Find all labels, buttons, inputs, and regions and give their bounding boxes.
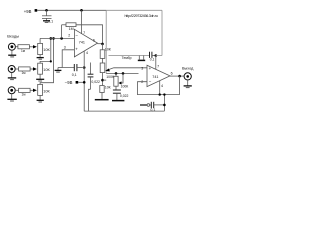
wire pin4 op1 down xyxy=(83,51,85,111)
svg-text:Входы: Входы xyxy=(7,33,19,38)
wire pin7 op1 xyxy=(81,10,83,33)
svg-text:10К: 10К xyxy=(105,48,112,52)
wiper arrow R1 to pot xyxy=(29,46,33,48)
wire wiper to pin3 op2 xyxy=(114,67,147,69)
potentiometer R4 10K xyxy=(38,63,43,74)
svg-text:10К: 10К xyxy=(43,68,50,72)
resistor R3 xyxy=(19,67,31,71)
wiper tap R8 xyxy=(120,73,123,83)
wire -9V xyxy=(78,81,84,83)
ground XS1 xyxy=(11,50,13,55)
node +9V dot xyxy=(35,9,38,12)
wire pot2 top join xyxy=(40,38,51,63)
junction dot pin4 xyxy=(159,93,161,95)
op-amp U2 741 xyxy=(147,65,170,86)
ground C4 xyxy=(116,93,118,100)
junction dot chain xyxy=(101,79,104,82)
junction dot bias2 xyxy=(122,72,125,75)
svg-text:0,1: 0,1 xyxy=(72,73,77,77)
potentiometer R4b 10K xyxy=(38,84,43,95)
potentiometer R7 100K volume xyxy=(100,63,105,73)
wire pot bottom xyxy=(102,73,104,83)
wire +9V rail xyxy=(37,9,106,11)
svg-text:Тембр: Тембр xyxy=(122,56,132,60)
wire input2 xyxy=(15,68,18,70)
label inputs xyxy=(7,33,19,38)
junction dot -9V xyxy=(83,81,86,84)
svg-text:3: 3 xyxy=(64,46,66,50)
wire riser to rail xyxy=(163,95,165,112)
wiper arrow R7 xyxy=(107,68,114,70)
wire +9V right drop xyxy=(161,10,163,55)
connector XS4 output xyxy=(184,73,191,80)
junction dot ch2 corner xyxy=(50,60,52,62)
potentiometer R8 100K xyxy=(115,73,117,76)
wire op1 output xyxy=(98,43,103,45)
resistor R5 1M feedback xyxy=(66,23,76,27)
ground XS2 xyxy=(11,73,13,78)
junction dot C2 to V- line xyxy=(83,66,86,69)
wire pin7 op2 xyxy=(155,56,157,70)
wire feedback right xyxy=(76,25,103,44)
wire pin3 op1 xyxy=(62,50,74,68)
svg-text:2: 2 xyxy=(68,33,70,37)
node +9V label xyxy=(24,9,32,14)
svg-text:6: 6 xyxy=(171,71,173,75)
junction dot bus ch2 xyxy=(50,37,53,40)
capacitor C7 1uF electrolytic xyxy=(138,56,140,60)
svg-text:6: 6 xyxy=(93,39,95,43)
ground pot3 xyxy=(37,99,44,101)
wire input3 xyxy=(15,89,18,91)
ground pin3 branch xyxy=(58,67,62,69)
resistor R5a xyxy=(19,88,31,92)
svg-text:0,022: 0,022 xyxy=(120,94,129,98)
capacitor C6 0,1 bottom xyxy=(140,104,147,106)
wire out down xyxy=(102,44,104,50)
wire pot3 bottom xyxy=(39,95,41,100)
wire inverting bus xyxy=(40,37,74,39)
wire +9V rail right (light) xyxy=(106,9,162,11)
svg-text:2: 2 xyxy=(141,80,143,84)
wire chain branch xyxy=(103,79,107,81)
junction dot +9V to pin7 xyxy=(80,9,83,12)
wire op2 output xyxy=(170,75,184,77)
svg-text:10К: 10К xyxy=(43,48,50,52)
wire pot3 top join xyxy=(40,38,53,84)
capacitor C3 0,022 xyxy=(90,63,92,75)
connector XS3 input 3 xyxy=(8,87,15,94)
svg-text:100К: 100К xyxy=(121,85,129,89)
svg-text:100К: 100К xyxy=(106,75,114,79)
junction dot bus feedback xyxy=(60,37,63,40)
ground under C1 xyxy=(43,20,50,22)
capacitor C4 0,022 xyxy=(115,86,117,90)
label Тембр xyxy=(122,56,132,60)
wire rail to pin7 junction xyxy=(156,55,162,57)
capacitor C1 0,1 xyxy=(42,15,52,17)
wire R7b top xyxy=(102,82,104,85)
svg-text:−9В: −9В xyxy=(65,80,73,85)
junction dot output xyxy=(178,75,181,78)
connector XS1 input 1 xyxy=(8,43,15,50)
label URL xyxy=(125,14,158,18)
wire input1 xyxy=(15,46,18,48)
wire pin4 op2 stub xyxy=(159,81,161,95)
svg-text:0,022: 0,022 xyxy=(91,80,100,84)
connector XS2 input 2 xyxy=(8,66,15,73)
potentiometer R2 10K xyxy=(38,43,43,54)
svg-text:4: 4 xyxy=(86,51,88,55)
label -9V xyxy=(65,80,73,85)
svg-text:10К: 10К xyxy=(43,89,50,93)
wire R7b bottom xyxy=(101,93,103,100)
svg-text:Выход: Выход xyxy=(182,67,194,71)
wire pot1 top to bus xyxy=(39,38,41,43)
ground chain xyxy=(95,99,109,101)
svg-text:http://229732456.3dn.ru: http://229732456.3dn.ru xyxy=(125,14,158,18)
resistor R1 xyxy=(18,45,30,49)
junction dot pin7 op2 xyxy=(155,54,158,57)
wire bottom rail xyxy=(84,110,164,112)
capacitor C5 0,1 top op2 xyxy=(149,52,151,58)
svg-text:741: 741 xyxy=(79,40,85,44)
resistor R6 10K xyxy=(100,50,105,59)
wire between xyxy=(102,58,104,63)
wiper arrow R3 to pot xyxy=(30,68,33,70)
label output xyxy=(182,67,194,71)
junction dot bias1 xyxy=(115,72,118,75)
wire C1 lead xyxy=(46,10,48,16)
wire feedback left drop xyxy=(61,25,63,39)
junction dot riser top xyxy=(163,93,165,95)
wire pot1 bottom xyxy=(39,55,41,58)
ground pot1 xyxy=(37,57,44,59)
svg-text:4: 4 xyxy=(161,84,163,88)
junction dot C1 xyxy=(45,9,48,12)
junction dot C6 xyxy=(163,104,166,107)
svg-text:−: − xyxy=(149,79,152,84)
svg-text:741: 741 xyxy=(152,75,158,79)
junction dot bus ch3 xyxy=(52,37,55,40)
svg-text:1м: 1м xyxy=(22,71,26,75)
wire mid vertical branch xyxy=(105,10,107,73)
wire tone line xyxy=(109,55,150,57)
svg-text:0,1: 0,1 xyxy=(150,108,155,112)
ground XS3in xyxy=(11,94,13,100)
op-amp U1 741 xyxy=(74,29,97,57)
svg-text:0,1: 0,1 xyxy=(150,57,155,61)
ground XS4 xyxy=(187,80,189,86)
svg-text:+9В: +9В xyxy=(24,9,32,14)
svg-text:+: + xyxy=(149,66,152,71)
svg-text:−: − xyxy=(75,33,78,38)
svg-text:3: 3 xyxy=(141,66,143,70)
svg-text:1м: 1м xyxy=(22,93,26,97)
svg-text:7: 7 xyxy=(157,65,159,69)
node -9V dot xyxy=(76,81,79,84)
resistor R7b 10K xyxy=(100,86,104,93)
wire pot2 bottom xyxy=(39,74,41,79)
wire pin2 op2 feedback xyxy=(138,82,180,95)
capacitor C2 0,1 xyxy=(73,64,75,71)
ground pot2 xyxy=(36,78,44,80)
svg-text:+: + xyxy=(75,46,78,51)
wire bias bus xyxy=(106,72,138,74)
svg-text:1М: 1М xyxy=(69,27,74,31)
wiper arrow to pot3 xyxy=(30,89,33,91)
junction dot op1 out xyxy=(101,43,104,46)
wire output feedback drop xyxy=(179,76,181,95)
svg-text:1м: 1м xyxy=(21,49,25,53)
svg-text:10К: 10К xyxy=(105,86,111,90)
